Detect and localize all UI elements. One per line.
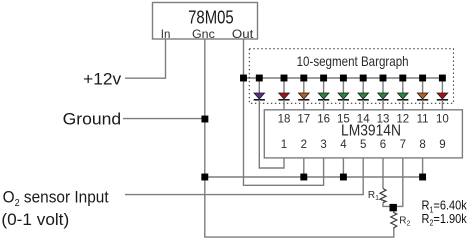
svg-text:In: In (161, 29, 171, 41)
svg-text:78M05: 78M05 (188, 7, 234, 28)
svg-text:+12v: +12v (83, 69, 122, 88)
svg-text:9: 9 (439, 139, 445, 151)
svg-text:7: 7 (400, 139, 406, 151)
svg-text:R2=1.90k: R2=1.90k (422, 212, 468, 228)
svg-text:17: 17 (297, 114, 310, 126)
svg-text:8: 8 (419, 139, 425, 151)
svg-text:2: 2 (301, 139, 307, 151)
svg-text:1: 1 (281, 139, 287, 151)
svg-text:6: 6 (380, 139, 386, 151)
svg-text:10: 10 (436, 114, 449, 126)
svg-text:14: 14 (357, 114, 370, 126)
svg-text:Out: Out (232, 29, 254, 41)
svg-text:Ground: Ground (63, 110, 122, 129)
svg-text:10-segment Bargraph: 10-segment Bargraph (297, 54, 409, 69)
svg-text:12: 12 (396, 114, 409, 126)
svg-text:16: 16 (317, 114, 330, 126)
svg-text:LM3914N: LM3914N (341, 123, 401, 140)
svg-text:4: 4 (340, 139, 347, 151)
svg-text:15: 15 (337, 114, 350, 126)
svg-text:5: 5 (360, 139, 366, 151)
svg-text:18: 18 (278, 114, 291, 126)
svg-text:3: 3 (320, 139, 326, 151)
svg-text:11: 11 (417, 114, 429, 126)
svg-text:(0-1 volt): (0-1 volt) (1, 210, 69, 229)
svg-text:13: 13 (377, 114, 390, 126)
svg-text:Gnc: Gnc (192, 29, 215, 41)
